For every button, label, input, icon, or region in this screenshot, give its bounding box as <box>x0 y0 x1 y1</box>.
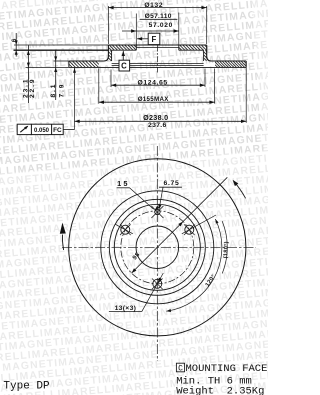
datum box C <box>119 60 130 71</box>
bolt hole 3 (bottom) <box>152 279 163 290</box>
dimension text 22.9 <box>29 78 36 98</box>
dimension line diameter 57 <box>122 29 179 32</box>
svg-text:13(×3): 13(×3) <box>115 305 137 312</box>
svg-text:0.050: 0.050 <box>34 128 50 134</box>
runout datum FC <box>53 127 62 134</box>
angle dimension arc 180 <box>222 221 227 273</box>
svg-text:Ø155MAX: Ø155MAX <box>138 96 170 103</box>
dimension text 15 <box>117 179 130 188</box>
hat wall right outer <box>207 45 212 61</box>
runout value 0.050 <box>34 128 50 134</box>
dimension line 8.1 <box>54 51 57 101</box>
type note <box>3 381 50 393</box>
dimension text 6.75 <box>159 180 182 187</box>
svg-text:6.75: 6.75 <box>163 180 179 187</box>
hat wall left outer <box>104 45 109 61</box>
hat wall left hatch <box>98 50 134 61</box>
flange hatch right <box>173 45 216 50</box>
leader 13x3 to bottom hole <box>142 273 164 312</box>
bore right edge <box>178 45 180 50</box>
dimension line diameter 238 <box>75 120 247 123</box>
flange hatch left <box>103 45 146 50</box>
svg-text:237.6: 237.6 <box>148 122 167 129</box>
bolt hole 2 (NW) <box>120 224 131 235</box>
datum F leader arrow <box>137 37 148 40</box>
min thickness note <box>176 375 252 387</box>
dimension text 6 <box>11 38 18 42</box>
angle text 120 <box>205 273 218 288</box>
mounting face extension line to left <box>14 49 109 51</box>
ring mid line 1 <box>112 62 204 64</box>
radial line through NW hole <box>115 224 133 234</box>
radial line 45 degrees <box>183 177 227 221</box>
ring hatch left <box>63 61 109 67</box>
dimension text diameter 57.110 <box>145 13 172 20</box>
svg-text:57.020: 57.020 <box>149 22 173 29</box>
bolt hole 1 (NE) <box>184 224 195 235</box>
dimension line 23.1 <box>27 45 30 103</box>
svg-text:C: C <box>121 62 127 71</box>
svg-text:6: 6 <box>11 38 18 42</box>
extension line 238 right <box>245 67 247 122</box>
radial line through NE hole <box>182 215 216 234</box>
tolerance fraction bar 57 <box>140 18 178 20</box>
bore back edge line <box>136 46 179 48</box>
extension line 124.65 left <box>110 70 112 88</box>
center bore circle diameter 57 <box>136 226 179 269</box>
bore extension line right <box>178 13 180 46</box>
front view vertical centerline <box>156 146 158 361</box>
hat top surface line <box>108 44 206 46</box>
extension line 132 right <box>206 6 208 44</box>
dimension line diameter 132 <box>108 6 206 9</box>
runout frame box <box>17 124 63 134</box>
hat circle diameter 132 <box>109 199 205 295</box>
dimension text diameter 155MAX <box>138 96 170 103</box>
dimension text 13(x3) <box>109 305 142 312</box>
disc right edge <box>245 61 247 67</box>
dimension text 7.9 <box>59 83 66 98</box>
disc left edge <box>68 61 70 67</box>
hat top extension line to left <box>14 44 108 46</box>
ring bottom line <box>69 66 246 68</box>
dimension text 98 <box>131 251 141 261</box>
hat wall left inner <box>111 50 113 61</box>
svg-text:Ø238.0: Ø238.0 <box>143 113 168 122</box>
mounting face note <box>176 363 267 375</box>
svg-text:15: 15 <box>117 179 130 188</box>
extension line 132 left <box>107 6 109 44</box>
ring hatch right <box>209 61 259 67</box>
pin hole diameter 6.75 <box>151 206 163 218</box>
svg-text:Ø132: Ø132 <box>144 2 163 9</box>
braking band inner circle diameter 155 <box>101 191 214 304</box>
hat wall right hatch <box>193 50 226 61</box>
dimension line 6 <box>15 33 18 57</box>
outer circle diameter 238 <box>69 159 246 336</box>
extension line 155 left <box>98 69 100 104</box>
datum C leader arrow <box>122 51 125 60</box>
leader 15 to pin hole <box>130 188 160 210</box>
rotation arrow right <box>233 180 246 199</box>
ring top line right <box>212 60 247 62</box>
svg-text:Weight 2.35Kg: Weight 2.35Kg <box>176 386 264 395</box>
extension line 238 left with arrow <box>73 67 76 129</box>
ring mid line 2 <box>112 65 204 67</box>
angle dimension arc 120 <box>166 219 222 312</box>
svg-text:Type DP: Type DP <box>3 381 50 393</box>
leader 6.75 to pin hole <box>158 187 163 209</box>
svg-text:F: F <box>151 35 156 44</box>
section centerline <box>157 46 159 73</box>
dimension line diameter 124.65 <box>111 84 205 87</box>
weight note <box>176 386 264 395</box>
dimension text 57.020 <box>149 22 173 29</box>
dimension text 8.1 <box>50 83 57 98</box>
dimension line diameter 155 <box>99 101 215 104</box>
runout symbol <box>20 126 28 133</box>
svg-text:Ø124.65: Ø124.65 <box>137 79 167 86</box>
angle text (180) <box>223 241 230 258</box>
dimension text diameter 238.0 <box>143 113 168 122</box>
bore extension line left <box>135 14 137 46</box>
hat wall right inner <box>203 50 205 61</box>
runout leader <box>63 128 74 130</box>
extension line 124.65 right <box>204 69 206 88</box>
svg-text:(180°): (180°) <box>223 241 230 258</box>
extension line 155 right <box>214 69 216 104</box>
dimension text 237.6 <box>148 122 167 129</box>
svg-text:C: C <box>178 364 183 373</box>
svg-text:7.9: 7.9 <box>59 83 66 98</box>
bore left edge <box>135 45 137 50</box>
ring bottom extension left <box>26 66 69 68</box>
mounting face line <box>112 49 204 51</box>
front view horizontal centerline <box>62 246 256 248</box>
dimension text diameter 132 <box>144 2 163 9</box>
svg-text:22.9: 22.9 <box>29 78 36 98</box>
svg-text:8.1: 8.1 <box>50 83 57 98</box>
svg-text:MOUNTING FACE: MOUNTING FACE <box>186 363 268 375</box>
ring top extension left <box>54 60 69 62</box>
bolt circle diameter 98 <box>121 211 194 284</box>
ring top line left <box>69 60 104 62</box>
rotation arrow left <box>60 223 66 250</box>
dimension text diameter 124.65 <box>137 79 167 86</box>
bolt circle dimension line 98 <box>132 222 184 274</box>
hat inner circle <box>114 204 200 290</box>
dimension text 23.1 <box>22 78 29 98</box>
datum box F <box>148 33 160 44</box>
svg-text:FC: FC <box>53 127 62 134</box>
svg-text:Ø57.110: Ø57.110 <box>145 13 172 20</box>
